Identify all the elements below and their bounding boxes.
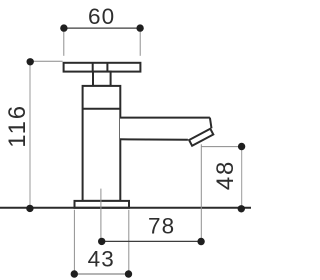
spout fill	[120, 118, 212, 141]
dim 43 left extension	[73, 210, 75, 274]
dim 78 left extension (tap axis)	[100, 189, 102, 242]
handle hub line left	[92, 63, 94, 72]
dot 43 right	[125, 270, 132, 277]
dim 78 line	[102, 240, 201, 242]
handle hub line right	[106, 63, 108, 72]
base flange	[75, 201, 130, 208]
aerator tip	[189, 129, 213, 146]
dim 43 right extension	[128, 210, 130, 274]
dim 116 top extension	[30, 60, 62, 62]
dot 60 right	[136, 24, 143, 31]
dim 116 line	[29, 62, 31, 209]
svg-text:116: 116	[4, 104, 31, 148]
dot 48 top	[238, 143, 245, 150]
dot 116 top	[27, 58, 34, 65]
handle cross bar	[64, 63, 141, 72]
dim 43 line	[74, 273, 128, 275]
dot 48 bottom	[238, 205, 245, 212]
dim 60 left extension	[63, 32, 65, 56]
baseline (mounting surface)	[0, 207, 251, 209]
svg-text:78: 78	[148, 213, 175, 238]
dot 78 right	[197, 238, 204, 245]
dim 60 line	[64, 27, 140, 29]
dot 43 left	[71, 270, 78, 277]
dim 48 line	[241, 147, 243, 209]
dim 78 right extension (spout outlet axis)	[200, 144, 202, 241]
dot 78 left	[98, 238, 105, 245]
svg-text:60: 60	[88, 4, 115, 29]
body	[83, 86, 121, 201]
spout bottom edge	[120, 138, 188, 140]
dot 60 left	[60, 24, 67, 31]
dot 116 bottom	[26, 205, 33, 212]
bonnet stem	[93, 72, 111, 86]
svg-text:43: 43	[88, 247, 115, 272]
spout top edge	[120, 117, 210, 119]
body seam line	[83, 108, 121, 110]
dim 48 top extension	[201, 146, 242, 148]
dim 60 right extension	[139, 32, 141, 56]
svg-text:48: 48	[212, 160, 239, 190]
spout right bevel	[210, 118, 212, 129]
